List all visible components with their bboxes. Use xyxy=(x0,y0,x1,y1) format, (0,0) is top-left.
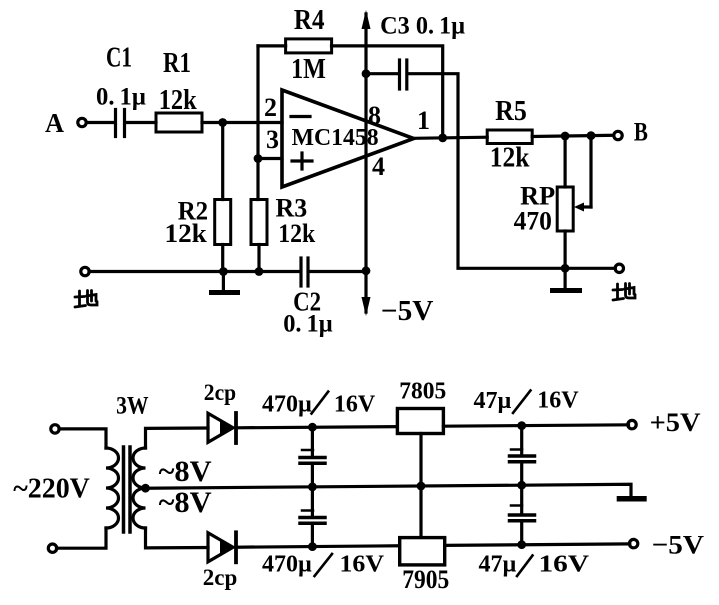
node output junction xyxy=(438,134,447,143)
svg-text:−5V: −5V xyxy=(652,530,704,560)
node pin3 junction xyxy=(254,154,263,163)
svg-text:2cp: 2cp xyxy=(204,380,236,405)
wire xyxy=(257,245,260,272)
node top rail 47u junction xyxy=(517,421,526,430)
RP wiper arrow xyxy=(574,136,591,212)
wire ground run left xyxy=(89,270,300,273)
svg-text:7905: 7905 xyxy=(402,565,449,594)
op-amp plus sign xyxy=(292,153,312,169)
capacitor 47u top xyxy=(510,426,535,486)
470u/16V label bottom xyxy=(262,552,385,578)
svg-text:−5V: −5V xyxy=(381,296,434,327)
svg-text:R1: R1 xyxy=(163,47,191,79)
capacitor 470u top xyxy=(300,427,325,487)
resistor R4 xyxy=(286,39,332,53)
node middle regulators junction xyxy=(417,482,426,491)
diode D1 (2cp) top xyxy=(208,413,236,443)
wire 7905 ground pin xyxy=(419,486,422,538)
power arrow up xyxy=(362,10,371,29)
wire C3 right down to ground run xyxy=(409,74,566,269)
svg-text:~220V: ~220V xyxy=(13,472,90,504)
svg-text:16V: 16V xyxy=(539,552,590,578)
svg-text:12k: 12k xyxy=(490,143,530,174)
svg-text:1M: 1M xyxy=(291,53,326,85)
svg-text:A: A xyxy=(45,108,64,138)
capacitor C2 xyxy=(301,258,308,286)
svg-text:3: 3 xyxy=(266,125,279,154)
svg-text:12k: 12k xyxy=(278,219,315,248)
terminal ground left xyxy=(81,267,89,275)
svg-text:16V: 16V xyxy=(537,388,579,414)
wire 7805 ground pin xyxy=(419,434,422,487)
potentiometer RP xyxy=(557,187,573,231)
regulator U2 7805 xyxy=(397,409,443,434)
node R2 ground junction xyxy=(219,267,228,276)
svg-text:12k: 12k xyxy=(165,219,208,248)
wire to right ground terminal xyxy=(565,267,615,270)
svg-text:3W: 3W xyxy=(116,393,149,420)
svg-text:470: 470 xyxy=(514,207,552,236)
wire RP bottom xyxy=(563,231,566,268)
wire xyxy=(221,123,224,200)
ground symbol right of middle rail xyxy=(617,496,647,502)
svg-text:0. 1µ: 0. 1µ xyxy=(283,311,333,338)
wire RP top xyxy=(563,136,566,187)
node wiper junction xyxy=(587,131,596,140)
svg-text:4: 4 xyxy=(372,152,385,181)
transformer secondary winding xyxy=(133,448,146,528)
capacitor C3 xyxy=(400,60,407,89)
node R5/RP junction xyxy=(561,132,570,141)
wire xyxy=(221,245,224,272)
svg-text:2: 2 xyxy=(264,93,277,122)
wire C3 left xyxy=(366,72,398,75)
terminal A xyxy=(78,118,86,126)
svg-text:16V: 16V xyxy=(334,391,376,417)
resistor R3 xyxy=(251,200,267,245)
terminal B xyxy=(614,131,622,139)
wire secondary top xyxy=(146,428,209,448)
power rail vertical +5/-5 xyxy=(364,14,367,312)
terminal AC bottom xyxy=(48,544,56,552)
terminal -5V xyxy=(629,539,637,547)
node ground junction right xyxy=(561,264,570,273)
node top rail 470u junction xyxy=(308,423,317,432)
svg-text:470µ: 470µ xyxy=(262,391,312,417)
ground symbol under R2 xyxy=(209,272,240,296)
feedback wire from R4 to pin2/pin3 column xyxy=(256,46,259,200)
regulator U3 7905 xyxy=(400,538,445,565)
wire bottom rail right xyxy=(445,544,630,546)
node middle 47u junction xyxy=(517,481,526,490)
wire primary bottom xyxy=(57,528,107,548)
47u/16V label bottom xyxy=(479,552,590,578)
svg-text:C1: C1 xyxy=(106,42,132,74)
node R3 ground junction xyxy=(255,267,264,276)
svg-text:C3 0. 1µ: C3 0. 1µ xyxy=(380,13,465,40)
ground symbol right xyxy=(550,268,582,293)
svg-text:470µ: 470µ xyxy=(262,552,312,578)
ground label right (di) xyxy=(613,284,635,301)
diode D2 (2cp) bottom xyxy=(208,532,236,562)
wire xyxy=(127,121,157,124)
op-amp minus sign xyxy=(291,115,310,118)
svg-text:0. 1µ: 0. 1µ xyxy=(96,84,146,111)
wire xyxy=(532,135,613,136)
terminal ground right xyxy=(615,264,623,272)
capacitor 470u bottom xyxy=(300,487,325,547)
transformer core xyxy=(124,447,131,532)
svg-text:2cp: 2cp xyxy=(203,565,238,590)
svg-text:R4: R4 xyxy=(294,4,325,36)
svg-text:8: 8 xyxy=(368,101,381,130)
node center tap xyxy=(141,484,150,493)
transformer T1 primary winding xyxy=(106,448,118,528)
wire xyxy=(87,121,114,124)
resistor R5 xyxy=(487,130,532,144)
svg-text:16V: 16V xyxy=(340,552,385,578)
svg-text:~8V: ~8V xyxy=(159,455,212,488)
terminal AC top xyxy=(51,425,59,433)
svg-text:R5: R5 xyxy=(495,96,527,127)
resistor R1 xyxy=(156,113,202,132)
wire xyxy=(202,121,282,124)
node C3 left junction xyxy=(362,69,371,78)
wire bottom rail xyxy=(236,546,400,547)
wire top rail xyxy=(236,427,397,428)
wire secondary bottom xyxy=(146,528,209,548)
svg-text:47µ: 47µ xyxy=(479,552,517,578)
svg-text:12k: 12k xyxy=(159,85,197,116)
terminal +5V xyxy=(628,420,636,428)
wire primary top xyxy=(59,429,106,448)
op-amp U1 MC1458 xyxy=(282,90,414,187)
wire R4 left xyxy=(258,44,286,47)
svg-text:47µ: 47µ xyxy=(474,388,512,414)
svg-text:B: B xyxy=(634,118,648,147)
wire top rail right xyxy=(443,425,628,426)
wire output xyxy=(414,137,488,138)
node middle 470u junction xyxy=(308,483,317,492)
power arrow down xyxy=(362,297,371,316)
node bottom rail 47u junction xyxy=(517,540,526,549)
node bottom rail 470u junction xyxy=(308,542,317,551)
capacitor C1 xyxy=(116,110,125,137)
capacitor 47u bottom xyxy=(510,485,535,545)
svg-text:~8V: ~8V xyxy=(159,486,212,519)
svg-text:7805: 7805 xyxy=(399,377,446,404)
wire R4 right to output xyxy=(332,46,443,138)
resistor R2 xyxy=(215,200,231,245)
470u/16V label top xyxy=(262,391,376,417)
47u/16V label top xyxy=(474,388,580,415)
node junction R1/R2 xyxy=(218,118,227,127)
svg-text:+5V: +5V xyxy=(650,407,701,437)
wire C2 right xyxy=(310,270,367,273)
node power/ground junction xyxy=(362,266,371,275)
svg-text:1: 1 xyxy=(417,106,430,135)
ground label left (di) xyxy=(75,291,97,308)
wire pin3 xyxy=(258,157,282,160)
wire middle rail xyxy=(146,484,632,496)
